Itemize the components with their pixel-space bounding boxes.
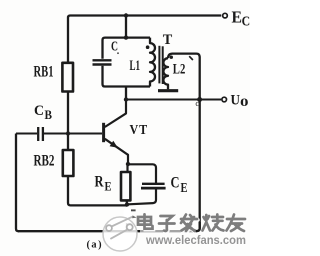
svg-text:RB2: RB2 xyxy=(34,153,55,170)
wire emitter junction to CE xyxy=(128,164,156,183)
svg-text:E: E xyxy=(232,8,243,27)
wire bottom rail xyxy=(18,230,197,232)
inductor L2 xyxy=(168,54,200,59)
wire CB to base xyxy=(44,132,102,134)
svg-text:T: T xyxy=(163,32,173,48)
wire emitter junction to RE xyxy=(126,164,128,172)
svg-text:c: c xyxy=(195,98,199,108)
LC tank loop top and left upper edge xyxy=(103,38,151,59)
svg-text:R: R xyxy=(95,173,104,190)
svg-text:C: C xyxy=(111,40,118,55)
wire RB2 top xyxy=(67,134,69,151)
resistor RB2 xyxy=(63,150,74,176)
svg-text:L1: L1 xyxy=(130,58,141,74)
node base junction xyxy=(66,131,70,135)
watermark text band fade xyxy=(140,230,195,233)
wire RB1 to base node xyxy=(67,92,69,134)
wire output lead xyxy=(200,98,222,100)
node top rail junction xyxy=(124,13,128,17)
svg-text:www.elecfans.com: www.elecfans.com xyxy=(145,235,246,247)
wire main vertical to tank xyxy=(125,16,127,38)
svg-text:RB1: RB1 xyxy=(34,63,54,80)
svg-text:0: 0 xyxy=(240,95,249,109)
speck after C label xyxy=(117,52,119,54)
capacitor C xyxy=(93,59,112,61)
transistor VT base bar xyxy=(102,123,105,142)
resistor RB1 xyxy=(62,63,73,92)
terminal EC xyxy=(223,13,228,18)
capacitor CB xyxy=(37,127,39,141)
transistor VT emitter arrow xyxy=(110,141,118,148)
svg-text:C: C xyxy=(242,14,250,29)
node tank top junction xyxy=(124,35,128,39)
wire left branch down xyxy=(16,134,19,232)
transformer core xyxy=(158,46,160,84)
wire right branch down xyxy=(197,57,200,232)
wire right branch foot overlay xyxy=(196,222,200,231)
wire emitter node to bottom rail xyxy=(126,205,128,232)
svg-text:U: U xyxy=(231,93,241,109)
svg-text:B: B xyxy=(45,107,53,122)
LC tank loop left lower and bottom edge xyxy=(103,66,151,87)
ground bar under L2 xyxy=(158,89,178,92)
wire top supply rail xyxy=(70,14,221,16)
wire left branch top xyxy=(68,16,70,63)
node collector junction xyxy=(124,97,128,101)
svg-text:E: E xyxy=(181,180,188,195)
wire CE bottom xyxy=(129,189,157,205)
node L2 polarity dot xyxy=(170,56,173,59)
wire RB2 bottom to emitter ground node xyxy=(68,176,127,205)
node emitter ground junction xyxy=(125,202,129,206)
capacitor CE xyxy=(142,183,165,185)
svg-text:VT: VT xyxy=(130,123,149,138)
watermark text 电子发烧友 xyxy=(139,215,246,232)
resistor RE xyxy=(121,172,130,200)
svg-text:E: E xyxy=(105,178,112,193)
svg-text:(a): (a) xyxy=(87,240,104,251)
node output junction xyxy=(197,97,202,102)
node emitter junction xyxy=(126,162,130,166)
wire collector node to output branch xyxy=(126,98,200,100)
svg-text:C: C xyxy=(171,174,180,191)
wire RE bottom xyxy=(126,200,128,204)
wire tank bottom to collector node xyxy=(125,87,127,100)
svg-text:C: C xyxy=(34,103,44,119)
watermark logo circle xyxy=(103,207,137,252)
wire CB left lead xyxy=(16,132,37,134)
node L1 polarity dot xyxy=(146,45,150,49)
inductor L1 xyxy=(150,38,155,87)
terminal U0 xyxy=(222,97,227,102)
tick mark artifact near L2 xyxy=(189,56,193,60)
svg-text:L2: L2 xyxy=(173,62,186,78)
transistor VT collector lead xyxy=(105,100,126,128)
transistor VT emitter lead xyxy=(105,139,128,164)
